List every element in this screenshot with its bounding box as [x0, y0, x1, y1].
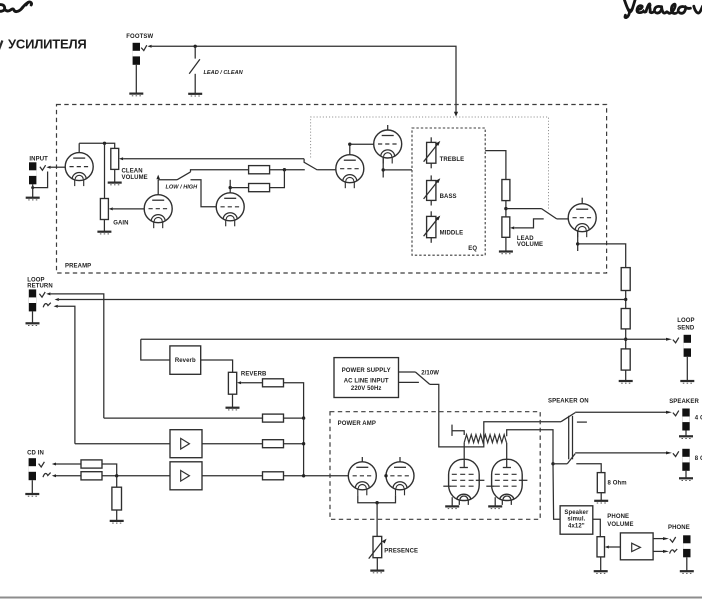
svg-text:AC LINE INPUT: AC LINE INPUT [344, 379, 389, 385]
R3 ground stem [625, 370, 627, 381]
headphone amp box [620, 533, 653, 560]
arrow into preamp control line [454, 112, 458, 117]
svg-text:SEND: SEND [677, 325, 695, 331]
title fragment of preceding letter [0, 41, 2, 50]
triode V4 [336, 155, 364, 189]
wire headphone out ring [653, 550, 663, 552]
node plate wire / gain feed [103, 142, 106, 145]
wire core to primary [452, 431, 464, 435]
node cathode bus [375, 501, 378, 504]
wire wiper to headphone amp [609, 546, 621, 548]
INPUT contact arrow [46, 166, 50, 169]
V6 cathode lead [577, 230, 579, 251]
pentode P1 [443, 459, 484, 505]
resistor 8 Ohm dummy [597, 473, 605, 493]
CD IN tip arrow [52, 463, 56, 466]
ground PHONE VOLUME [594, 571, 608, 573]
FOOTSW jack ground stem [135, 65, 137, 94]
switch LEAD/CLEAN arm [189, 59, 200, 74]
svg-text:TREBLE: TREBLE [440, 157, 465, 163]
wire pole2 node to speaker simulator [553, 464, 560, 519]
wire row1 to bus node [284, 417, 304, 419]
svg-text:LEAD / CLEAN: LEAD / CLEAN [204, 70, 244, 76]
LOOP RETURN ring contact [43, 303, 51, 308]
INPUT jack [29, 162, 36, 184]
ground P1 [445, 506, 459, 508]
INPUT ground stem [32, 184, 34, 197]
resistor R low [249, 184, 270, 192]
node loop send [624, 338, 627, 341]
CD IN ring arrow [52, 474, 56, 477]
ground loop divider [619, 381, 633, 383]
wire reverb feed corner [141, 339, 170, 360]
svg-text:RETURN: RETURN [27, 283, 53, 289]
svg-text:MIDDLE: MIDDLE [440, 230, 464, 236]
resistor loop R2 [621, 309, 630, 329]
wire channel switch to V4 grid [317, 169, 336, 171]
svg-text:CLEAN: CLEAN [122, 168, 143, 174]
V2 plate lead with arrow [157, 180, 159, 195]
svg-text:PRESENCE: PRESENCE [384, 548, 418, 554]
svg-text:4 Ohm: 4 Ohm [695, 415, 702, 421]
wire pole1 to speaker jack1 [575, 411, 666, 413]
SPEAKER jack1 arrow [666, 411, 672, 414]
triode V8 (driver) [386, 462, 414, 496]
node V3 plate [229, 186, 232, 189]
EQ dashed box [412, 128, 485, 255]
potentiometer PRESENCE [373, 536, 382, 557]
wire mixer row2 into buffer A [75, 443, 170, 445]
switch LEAD/CLEAN stem [194, 46, 196, 58]
REVERB lower stem [232, 394, 234, 408]
CD IN ring contact [43, 473, 51, 478]
FOOTSW jack tip contact [141, 45, 147, 50]
SPEAKER jack1 [682, 409, 689, 431]
switch 2/10W lower contact [399, 381, 419, 383]
V8 plate stub [399, 457, 401, 462]
resistor CD shunt [112, 487, 122, 510]
transformer primary coil [464, 435, 506, 443]
wire V2 to LOW/HIGH switch [158, 179, 177, 181]
svg-text:PHONE: PHONE [668, 525, 690, 531]
wire V1 plate to clean volume [79, 143, 115, 148]
node V5 cathode [382, 168, 385, 171]
CD IN ground stem [31, 480, 33, 494]
svg-text:GAIN: GAIN [113, 221, 128, 227]
headphone amp triangle [632, 543, 641, 551]
PHONE ring contact [670, 549, 678, 554]
svg-text:8 Ohm: 8 Ohm [608, 481, 627, 487]
svg-text:POWER SUPPLY: POWER SUPPLY [342, 368, 391, 374]
wire from loop divider to return contact [59, 299, 626, 301]
block Reverb [170, 346, 201, 374]
svg-text:VOLUME: VOLUME [517, 242, 543, 248]
wire LOW/HIGH low contact to V3 grid [191, 180, 217, 207]
LEAD VOLUME lower stem [505, 237, 507, 251]
wire primary right to P2 plate [506, 443, 508, 468]
resistor EQ out [502, 180, 510, 201]
potentiometer CLEAN VOLUME [111, 148, 119, 169]
SPEAKER jack1 tip contact [673, 411, 679, 416]
node INPUT sleeve [31, 186, 34, 189]
ground LEAD/CLEAN switch [188, 94, 202, 96]
wire loop return ring down to mixer row2 [58, 306, 75, 444]
node bus row3 [302, 474, 305, 477]
wire REVERB wiper to mix resistor [241, 382, 262, 384]
dummy load ground stem [600, 493, 602, 501]
wire CLEAN VOLUME wiper to channel switch [123, 158, 304, 160]
wire simulator to phone volume [593, 519, 601, 537]
V5 plate stub [387, 125, 389, 130]
svg-text:CD IN: CD IN [27, 451, 44, 457]
wire driver cathode bus [358, 495, 396, 502]
svg-text:POWER AMP: POWER AMP [338, 421, 376, 427]
switch SPEAKER ON pole1 arm [561, 413, 575, 422]
node V4 plate [348, 143, 351, 146]
svg-text:VOLUME: VOLUME [122, 175, 148, 181]
logo Yerasov script (top-right, cropped) [624, 0, 702, 18]
LEAD VOLUME wiper arrow [510, 226, 514, 229]
svg-text:LOW / HIGH: LOW / HIGH [166, 185, 199, 191]
ground REVERB [226, 408, 240, 410]
wire V3 plate to R low [230, 187, 248, 189]
REVERB wiper arrow [237, 381, 241, 384]
svg-text:8 Ohm: 8 Ohm [695, 456, 702, 462]
node bus row1 [302, 416, 305, 419]
wire reverb mix to bus [284, 383, 304, 418]
ground P2 [488, 506, 502, 508]
SPEAKER jack2 [682, 449, 689, 471]
wire 2/10W to output transformer [430, 384, 561, 447]
control dotted line (footswitch linkage) [311, 117, 549, 211]
PHONE VOLUME lower stem [600, 557, 602, 571]
node lead bus [283, 168, 286, 171]
P2 cathode ground stem [494, 497, 496, 506]
node lead volume top [504, 207, 507, 210]
svg-text:4x12": 4x12" [568, 523, 585, 529]
wire resistor to lead volume node [505, 201, 507, 217]
resistor R bright [249, 166, 270, 174]
resistor mix row1 [263, 414, 284, 422]
ground CD IN [25, 494, 39, 496]
ground INPUT jack [26, 198, 40, 200]
LOOP RETURN tip contact [39, 292, 45, 297]
buffer amp A triangle [181, 438, 190, 449]
SPEAKER jack2 ground stem [685, 471, 687, 479]
wire headphone out tip [653, 538, 663, 540]
pole1 off contact stub [577, 421, 587, 423]
ground LEAD VOLUME [499, 252, 513, 254]
logo Yerasov tail (top-left, cropped) [0, 2, 32, 12]
triode V1 (input stage) [65, 153, 93, 187]
svg-text:220V 50Hz: 220V 50Hz [351, 386, 382, 392]
bus vertical [303, 418, 305, 476]
V5 cathode lead down [382, 157, 384, 178]
V1 plate lead [78, 143, 80, 152]
switch LEAD/CLEAN lower stem [194, 74, 196, 94]
wire INPUT to V1 grid [51, 166, 66, 168]
POWER SUPPLY box [334, 358, 399, 398]
ground dummy load [594, 501, 608, 503]
LOOP SEND tip contact [673, 338, 679, 343]
CD IN jack [29, 458, 36, 480]
switch pole2 arm [567, 454, 575, 464]
ground PHONE [680, 571, 694, 573]
wire FOOTSW to channel-switch control [152, 46, 456, 112]
CLEAN VOLUME wiper arrow [119, 157, 123, 160]
resistor CD right [81, 472, 102, 480]
svg-text:SPEAKER ON: SPEAKER ON [548, 398, 589, 404]
wire mixer row1 [104, 417, 263, 419]
potentiometer REVERB [228, 372, 236, 394]
ground SPEAKER jack1 [679, 436, 693, 438]
triode V5 (cathode follower) [374, 130, 402, 164]
wire send node to LOOP SEND jack + reverb tap [141, 338, 666, 340]
buffer amp B triangle [181, 471, 190, 482]
resistor loop R1 [621, 268, 630, 291]
svg-text:Speaker: Speaker [564, 510, 589, 516]
INPUT tip contact [40, 165, 46, 170]
node V6 cathode [576, 242, 579, 245]
wire GAIN wiper to V2 grid [113, 208, 145, 210]
switch lead channel [506, 208, 542, 210]
wire LOW/HIGH top contact to R bridge [191, 170, 249, 172]
wire loop return tip down to mixer row1 [50, 294, 103, 418]
node loop return feed [624, 298, 627, 301]
ground CD shunt [110, 521, 124, 523]
wire secondary tap to speaker switch pole2 [507, 430, 553, 464]
potentiometer TREBLE [424, 137, 441, 168]
triode V7 (driver) [348, 462, 376, 496]
LOOP SEND ground stem [686, 357, 688, 381]
ground SPEAKER jack2 [679, 478, 693, 480]
wire pole2 to speaker jack2 [575, 452, 666, 454]
wire V6 cathode to loop chain [578, 244, 626, 268]
wire R2 to send node [625, 329, 627, 349]
switch 2/10W upper contact [399, 371, 416, 373]
svg-text:LEAD: LEAD [517, 236, 534, 242]
resistor mix row2 [263, 440, 284, 448]
POWER AMP dashed box [330, 412, 540, 520]
wire EQ output [485, 151, 506, 180]
wire to presence pot [376, 503, 378, 537]
node speaker pole2 [551, 462, 554, 465]
ground LOOP RETURN [26, 323, 40, 325]
ground PRESENCE [370, 571, 384, 573]
switch LOW/HIGH arm [177, 172, 191, 180]
V6 plate stub [581, 198, 583, 204]
GAIN wiper arrow [109, 207, 113, 210]
PRESENCE lower stem [376, 558, 378, 571]
SPEAKER jack2 arrow [666, 451, 672, 454]
CLEAN VOLUME lower stem [114, 169, 116, 182]
wire reverb out to pot [201, 360, 233, 372]
wire R bright to lead bus [270, 169, 305, 171]
INPUT sleeve loop wire [33, 172, 48, 188]
wire V4 plate to V5 grid [350, 143, 374, 145]
svg-text:LOOP: LOOP [677, 318, 694, 324]
PHONE ground stem [686, 557, 688, 571]
switch pole2 feed [553, 463, 567, 465]
wire CD row2 into buffer B [102, 475, 170, 477]
transformer core terminal [451, 425, 453, 436]
potentiometer GAIN [100, 199, 108, 220]
LOOP RETURN jack [29, 289, 36, 311]
svg-text:VOLUME: VOLUME [607, 522, 633, 528]
svg-text:INPUT: INPUT [29, 156, 48, 162]
wire down to gain pot [104, 143, 106, 198]
buffer amp B box [170, 462, 202, 490]
GAIN lower stem [103, 220, 105, 232]
wire CD ring to resistor [56, 475, 81, 477]
svg-text:simul.: simul. [567, 517, 585, 523]
wire buffer A out [202, 443, 263, 445]
wire CD row1 join [102, 464, 117, 476]
block Speaker simul [560, 506, 593, 534]
switch 2/10W arm [415, 372, 429, 384]
svg-text:EQ: EQ [468, 246, 477, 252]
LOOP RETURN feed arrow [55, 298, 59, 301]
ground CLEAN VOLUME [108, 183, 122, 185]
resistor reverb mix [263, 379, 284, 387]
triode V6 (lead output) [568, 204, 596, 238]
wire LEAD VOLUME wiper to switch contact [514, 219, 544, 228]
V7 plate stub [361, 457, 363, 462]
PHONE jack [683, 535, 690, 557]
triode V2 (gain stage) [144, 195, 172, 229]
wire CD tip to resistor [56, 463, 81, 465]
wire to V6 grid [557, 218, 569, 220]
buffer amp A box [170, 430, 202, 458]
pentode P2 [486, 459, 527, 505]
CD IN tip contact [39, 462, 45, 467]
node V8 grid [384, 474, 387, 477]
PHONE tip contact [670, 537, 676, 542]
svg-text:BASS: BASS [440, 194, 457, 200]
potentiometer BASS [424, 175, 441, 205]
resistor CD left [81, 460, 102, 468]
svg-text:PHONE: PHONE [607, 514, 629, 520]
LOOP RETURN tip arrow [46, 292, 50, 295]
node junction footsw switch [194, 45, 197, 48]
wire R1 to loop node [625, 291, 627, 309]
svg-text:УСИЛИТЕЛЯ: УСИЛИТЕЛЯ [8, 37, 87, 52]
SPEAKER jack1 ground stem [685, 431, 687, 437]
svg-text:SPEAKER: SPEAKER [669, 399, 699, 405]
resistor mix row3 [263, 472, 284, 480]
node CD join [115, 474, 118, 477]
wire buffer B out [202, 475, 263, 477]
resistor loop R3 [621, 349, 630, 370]
V4 plate lead [349, 144, 351, 155]
ground FOOTSW jack [129, 94, 143, 96]
LOOP RETURN ring arrow [54, 305, 58, 308]
switch channel select (clean side) [304, 159, 317, 170]
ground GAIN [97, 232, 111, 234]
PHONE VOLUME wiper arrow [605, 546, 609, 549]
svg-text:2/10W: 2/10W [421, 370, 439, 376]
PHONE ring arrow [663, 550, 669, 553]
P1 cathode ground stem [451, 497, 453, 506]
svg-text:PREAMP: PREAMP [65, 264, 91, 270]
CD shunt stems [116, 476, 118, 487]
triode V3 (lead stage) [216, 193, 244, 227]
svg-text:Reverb: Reverb [175, 358, 196, 364]
pole2 off contact to dummy load [576, 464, 601, 473]
switch link bars [568, 416, 570, 460]
ground LOOP SEND [680, 381, 694, 383]
FOOTSW contact arrow [147, 45, 151, 48]
PHONE tip arrow [663, 537, 669, 540]
wire row3 to power amp [284, 475, 349, 477]
bottom rule [0, 597, 702, 599]
wire primary left to P1 plate [463, 443, 465, 468]
potentiometer PHONE VOLUME [597, 537, 605, 557]
node bus row2 [302, 442, 305, 445]
wire V5 cathode to EQ [383, 169, 412, 171]
FOOTSW jack [133, 43, 140, 65]
svg-text:FOOTSW: FOOTSW [126, 34, 153, 40]
svg-text:REVERB: REVERB [241, 371, 267, 377]
LOOP RETURN ground stem [32, 311, 34, 323]
V3 plate lead [229, 180, 231, 193]
LOOP SEND arrow [666, 338, 672, 341]
LOOP SEND jack [684, 335, 691, 357]
potentiometer LEAD VOLUME [502, 217, 510, 237]
PREAMP dashed box [57, 105, 607, 274]
switch lead arm [542, 209, 557, 219]
wire R low to lead bus [270, 170, 285, 188]
potentiometer MIDDLE [424, 211, 441, 243]
wire row2 to bus node [284, 443, 304, 445]
SPEAKER jack2 tip contact [673, 451, 679, 456]
